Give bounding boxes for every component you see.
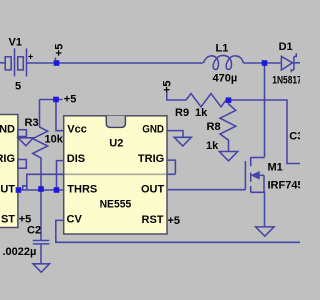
svg-text:.0022µ: .0022µ [3, 246, 37, 258]
svg-text:THRS: THRS [67, 184, 97, 196]
svg-text:470µ: 470µ [213, 73, 238, 85]
svg-text:L1: L1 [216, 43, 229, 55]
svg-text:+5: +5 [161, 80, 173, 93]
svg-text:IRF745: IRF745 [268, 180, 301, 192]
svg-text:UT: UT [0, 184, 15, 196]
svg-text:DIS: DIS [67, 153, 85, 165]
svg-text:+5: +5 [64, 94, 77, 106]
svg-text:R3: R3 [25, 117, 39, 129]
svg-text:+5: +5 [168, 215, 181, 227]
svg-text:RIG: RIG [0, 153, 15, 165]
svg-text:CV: CV [67, 214, 83, 226]
svg-text:+: + [28, 52, 33, 62]
svg-text:C3: C3 [289, 130, 300, 142]
svg-text:C2: C2 [27, 225, 41, 237]
svg-text:R8: R8 [207, 121, 221, 133]
svg-text:1N5817: 1N5817 [272, 74, 300, 86]
svg-text:10k: 10k [45, 134, 64, 146]
svg-text:Vcc: Vcc [67, 123, 87, 135]
svg-text:V1: V1 [9, 36, 22, 48]
svg-text:1k: 1k [206, 140, 219, 152]
svg-text:M1: M1 [268, 162, 283, 174]
svg-text:U2: U2 [109, 138, 123, 150]
svg-text:ND: ND [0, 123, 15, 135]
svg-text:RST: RST [142, 214, 164, 226]
svg-text:NE555: NE555 [100, 198, 132, 210]
svg-text:R9: R9 [175, 107, 189, 119]
svg-text:5: 5 [15, 81, 21, 93]
svg-text:OUT: OUT [141, 184, 165, 196]
svg-text:ST: ST [1, 213, 15, 225]
svg-text:TRIG: TRIG [138, 153, 164, 165]
svg-text:+5: +5 [53, 44, 65, 57]
svg-text:+5: +5 [19, 213, 32, 225]
svg-text:D1: D1 [279, 41, 293, 53]
svg-text:GND: GND [142, 123, 164, 135]
svg-text:1k: 1k [195, 107, 208, 119]
